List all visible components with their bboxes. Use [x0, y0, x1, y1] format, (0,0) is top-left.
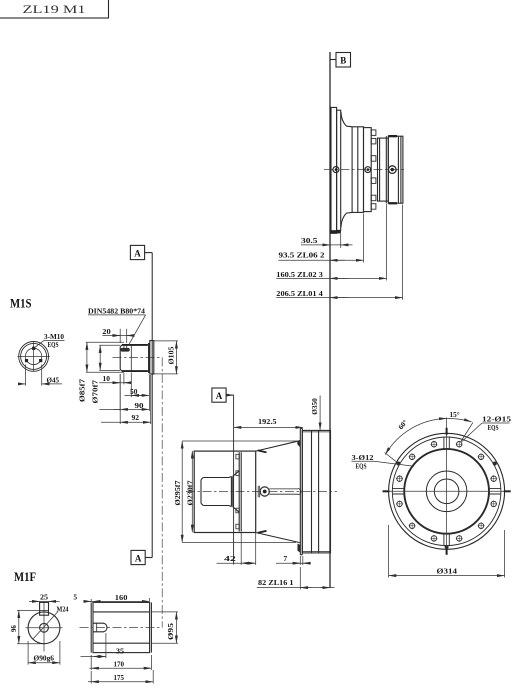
svg-text:160: 160 — [115, 594, 128, 602]
dim 192.5 — [234, 418, 303, 427]
dim 42 — [217, 533, 256, 565]
svg-text:Ø95: Ø95 — [168, 622, 175, 640]
svg-text:Ø314: Ø314 — [437, 567, 458, 575]
M1S shaft centerline — [113, 356, 163, 358]
dim 96 — [11, 610, 44, 643]
svg-text:92: 92 — [132, 414, 140, 422]
dim 175 — [88, 670, 153, 684]
dim 30.5 — [301, 237, 353, 245]
svg-text:ZL19 M1: ZL19 M1 — [23, 2, 86, 16]
mounting flange disc dia350 — [300, 428, 302, 554]
svg-text:160.5 ZL02 3: 160.5 ZL02 3 — [276, 271, 323, 279]
extension line at 93.5 — [363, 214, 365, 263]
centerline of top side view — [324, 169, 405, 171]
svg-text:35: 35 — [116, 648, 124, 656]
dim 170 — [90, 655, 152, 670]
dim dia70f7 — [93, 345, 121, 403]
dim dia230f7 — [188, 451, 195, 532]
dim 7 — [276, 555, 311, 565]
label M1F — [14, 569, 36, 584]
central view centerline — [186, 491, 337, 493]
thread plug stub — [93, 623, 107, 632]
M1F crosshair — [26, 603, 63, 652]
center bolt head — [260, 487, 269, 496]
svg-text:90: 90 — [135, 402, 145, 410]
dim dia95 — [152, 612, 178, 643]
12 bolt holes dia15 — [396, 441, 497, 542]
cylinder band 2 — [364, 128, 372, 212]
dim 160 — [90, 594, 150, 602]
extension line at 206.5 — [402, 205, 404, 300]
dim 93.5 ZL06 2 — [279, 252, 364, 261]
svg-text:M1F: M1F — [14, 569, 36, 584]
dim 82 ZL16 1 — [257, 567, 335, 590]
plate bolts in section — [236, 454, 239, 529]
svg-text:96: 96 — [11, 625, 18, 632]
spline tooth detail — [120, 348, 129, 352]
dim dia45 — [20, 365, 63, 386]
M1S bolt circle dia45 — [25, 348, 41, 364]
svg-text:Ø45: Ø45 — [47, 377, 60, 385]
stud nut arc — [298, 489, 301, 495]
keyway rectangle — [40, 602, 49, 615]
internal flange plate — [239, 452, 241, 531]
dim dia314 — [389, 525, 505, 578]
callout 3-M10 EQS — [35, 333, 65, 349]
cylinder band 1 — [352, 127, 363, 213]
svg-text:EQS: EQS — [356, 462, 367, 470]
section marker A top — [130, 245, 144, 259]
callout 12-dia15 EQS — [461, 416, 512, 443]
svg-text:170: 170 — [114, 660, 125, 668]
section line A-A — [145, 253, 153, 558]
label M1S — [10, 296, 32, 311]
dim 92 — [101, 374, 151, 424]
svg-text:206.5 ZL01 4: 206.5 ZL01 4 — [276, 290, 323, 298]
bolt head 2 on centerline — [365, 167, 371, 173]
svg-text:A: A — [135, 553, 142, 563]
svg-text:3-M10: 3-M10 — [44, 333, 64, 341]
output shaft stub — [201, 471, 239, 512]
tie stud — [269, 489, 298, 494]
svg-text:15°: 15° — [450, 411, 460, 419]
svg-text:B: B — [340, 56, 346, 66]
M1S crosshair — [17, 341, 49, 371]
angle dim 60 — [385, 418, 447, 461]
bell cone bottom — [256, 531, 301, 553]
svg-text:93.5 ZL06 2: 93.5 ZL06 2 — [279, 252, 326, 260]
svg-text:20: 20 — [102, 328, 111, 336]
svg-text:5: 5 — [74, 594, 78, 602]
bell cone top — [256, 440, 301, 452]
dim dia295f7 — [175, 441, 298, 542]
svg-text:EQS: EQS — [48, 341, 59, 349]
dim 50 — [125, 373, 150, 398]
svg-text:Ø90g6: Ø90g6 — [34, 655, 55, 663]
M1F end-view circle — [28, 612, 60, 644]
dim dia90g6 — [28, 641, 60, 665]
M1F centerline — [80, 627, 163, 629]
dim 20 — [102, 328, 133, 343]
dim 90 — [99, 374, 149, 411]
dim 206.5 ZL01 4 — [276, 290, 402, 298]
flange front view circles — [389, 433, 505, 549]
svg-text:30.5: 30.5 — [301, 237, 318, 245]
coupling outer sleeve — [388, 135, 403, 204]
M1S end-view circle outer — [19, 342, 49, 372]
washer lines — [258, 486, 260, 498]
svg-text:A: A — [216, 391, 223, 401]
svg-text:82 ZL16 1: 82 ZL16 1 — [258, 579, 294, 587]
bolt head 1 on centerline — [333, 167, 339, 173]
callout DIN5482 B80*74 — [88, 308, 146, 345]
dia105 disc — [150, 341, 154, 374]
dim dia105 — [154, 341, 178, 374]
svg-text:EQS: EQS — [488, 424, 499, 432]
section marker B — [336, 53, 351, 68]
section cut line A (central view) — [226, 395, 234, 564]
M1F sleeve body — [91, 602, 151, 652]
svg-text:12-Ø15: 12-Ø15 — [482, 416, 512, 424]
angle dim 15 — [447, 411, 473, 441]
callout M24 — [33, 605, 69, 639]
dim dia85f7 — [80, 342, 125, 402]
svg-text:42: 42 — [224, 555, 236, 563]
M10 hole SE — [39, 359, 42, 362]
hub outer box — [194, 451, 256, 532]
callout 3-dia12 EQS — [352, 454, 415, 471]
adapter ring — [302, 430, 330, 553]
svg-text:A: A — [134, 248, 141, 258]
extension line at 30.5 — [340, 234, 342, 248]
svg-text:M1S: M1S — [10, 296, 32, 311]
dim dia350 leader — [312, 396, 320, 431]
M10 hole SW — [25, 359, 28, 362]
svg-text:Ø105: Ø105 — [169, 346, 176, 365]
projection connector dashed to M1F — [161, 357, 163, 627]
flange crosshair — [383, 418, 511, 555]
dim 160.5 ZL02 3 — [276, 271, 386, 279]
svg-text:Ø85f7: Ø85f7 — [80, 378, 87, 402]
spline runout ticks — [124, 345, 127, 349]
spline end line — [130, 345, 132, 371]
extension line at 160.5 — [386, 204, 388, 281]
dim 5 (M1F) — [74, 594, 92, 603]
svg-text:DIN5482 B80*74: DIN5482 B80*74 — [88, 308, 145, 316]
dim 10 — [99, 373, 131, 384]
3 holes dia12 — [396, 462, 496, 550]
M10 hole top — [32, 347, 35, 350]
svg-text:7: 7 — [284, 555, 288, 563]
dim 35 — [81, 633, 125, 658]
bell cone of top side view — [341, 112, 352, 228]
spline teeth edge view — [371, 130, 376, 209]
svg-text:Ø230f7: Ø230f7 — [188, 480, 195, 506]
svg-text:175: 175 — [114, 674, 125, 682]
svg-text:Ø350: Ø350 — [312, 398, 319, 415]
svg-text:192.5: 192.5 — [258, 418, 277, 426]
flange of top side view — [331, 107, 341, 233]
svg-text:10: 10 — [103, 375, 111, 383]
svg-text:25: 25 — [40, 594, 48, 602]
section marker A bottom — [131, 550, 145, 564]
coupling middle ring — [378, 136, 389, 203]
M1S shaft body — [120, 343, 149, 373]
title block — [0, 0, 109, 18]
svg-text:3-Ø12: 3-Ø12 — [352, 454, 374, 462]
svg-text:M24: M24 — [57, 605, 69, 613]
section line B (vertical reference plane) — [330, 52, 336, 588]
section marker A (central view) — [212, 388, 226, 402]
svg-text:50: 50 — [130, 388, 138, 396]
svg-text:Ø70f7: Ø70f7 — [93, 379, 100, 403]
svg-text:Ø295f7: Ø295f7 — [175, 480, 182, 506]
keyway slot marks top/bottom/left/right — [392, 437, 501, 546]
bolt head 3 on centerline — [389, 166, 397, 174]
dim 25 — [29, 594, 60, 602]
